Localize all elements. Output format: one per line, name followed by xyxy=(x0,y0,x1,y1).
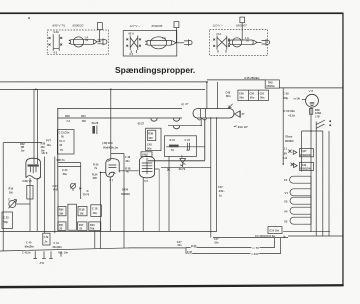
svg-text:432, 10n: 432, 10n xyxy=(58,251,68,255)
svg-text:C)47: C)47 xyxy=(301,149,307,153)
plug unit 2 fuse F2 xyxy=(145,36,176,49)
svg-text:6500/08: 6500/08 xyxy=(152,24,163,28)
svg-text:V 2: V 2 xyxy=(144,179,148,183)
capacitor CM box xyxy=(43,233,50,245)
tube V7 label xyxy=(109,178,113,182)
svg-text:C47: C47 xyxy=(218,185,223,189)
svg-text:5M: 5M xyxy=(59,212,63,216)
capacitor C40 label xyxy=(25,241,35,249)
mains bus wire L1 xyxy=(0,81,207,83)
svg-text:63 27: 63 27 xyxy=(138,122,145,126)
svg-text:R 33: R 33 xyxy=(93,163,99,167)
resistor R41 label xyxy=(243,76,260,80)
plug unit 2 switch xyxy=(126,32,141,57)
svg-text:R)N: R)N xyxy=(59,208,64,212)
label Ekstr 6000 xyxy=(285,135,294,143)
svg-text:50p: 50p xyxy=(4,220,9,224)
svg-text:50n|400k,1w: 50n|400k,1w xyxy=(103,145,118,149)
svg-text:C49: C49 xyxy=(239,92,244,96)
svg-text:C14 10n: C14 10n xyxy=(269,229,279,233)
svg-text:44R,7n: 44R,7n xyxy=(56,158,65,162)
tube V8 label xyxy=(309,89,314,93)
terminal tick xyxy=(60,252,62,257)
svg-text:C43: C43 xyxy=(147,142,152,146)
svg-text:150: 150 xyxy=(82,119,87,123)
svg-text:R16: R16 xyxy=(9,187,14,191)
wire junction dots xyxy=(35,81,312,173)
wire dropper right xyxy=(206,82,208,109)
svg-text:127 V ~: 127 V ~ xyxy=(130,24,141,28)
svg-text:30p: 30p xyxy=(283,96,288,100)
svg-text:10=100Ω R44 3w: 10=100Ω R44 3w xyxy=(255,234,275,238)
plug unit 3 wire to plug xyxy=(257,41,261,43)
capacitor 63-28 xyxy=(92,121,99,134)
svg-text:R,33: R,33 xyxy=(191,244,197,248)
svg-text:Extr HT: Extr HT xyxy=(238,125,248,129)
capacitor C48 label xyxy=(226,90,231,98)
ground bus LA xyxy=(0,230,217,232)
left column right edge xyxy=(80,163,82,199)
svg-text:30n|2kv: 30n|2kv xyxy=(53,245,63,249)
plug unit 3 label 6500/07 xyxy=(236,23,247,27)
label Extr HT xyxy=(234,125,248,129)
svg-text:C 53 30n: C 53 30n xyxy=(284,109,296,113)
svg-text:6500/20: 6500/20 xyxy=(73,24,84,28)
plug unit 2 label 127V xyxy=(130,24,141,28)
svg-text:200: 200 xyxy=(93,176,98,180)
svg-text:6000Ω: 6000Ω xyxy=(285,139,294,143)
x mark near V2 xyxy=(167,168,169,170)
bottom tie wire 2 xyxy=(288,235,343,237)
svg-text:150/5w: 150/5w xyxy=(266,84,274,88)
label -7V xyxy=(252,246,259,250)
svg-text:0.2A: 0.2A xyxy=(54,30,60,34)
plug unit 2 wire to plug xyxy=(176,42,184,44)
svg-text:50n: 50n xyxy=(260,96,265,100)
svg-text:PYT: PYT xyxy=(46,139,51,143)
label C36 R39 xyxy=(102,141,118,149)
label C34 xyxy=(62,168,68,176)
svg-text:R30: R30 xyxy=(65,114,70,118)
resistor R17 box xyxy=(78,222,87,231)
trimmer capacitor 3 xyxy=(70,183,75,191)
capacitor C52 label xyxy=(283,92,289,100)
plug unit 2 top terminal square xyxy=(174,22,179,28)
label 18V C14 xyxy=(283,147,288,160)
label Ib xyxy=(283,235,286,239)
svg-text:110 V ~: 110 V ~ xyxy=(213,23,223,27)
resistor box on stem xyxy=(27,185,33,199)
svg-text:10n: 10n xyxy=(214,241,219,245)
svg-text:C,10: C,10 xyxy=(53,184,59,188)
heater bus vertical xyxy=(310,176,312,224)
svg-text:R36: R36 xyxy=(41,142,46,146)
inner wire y167.3 xyxy=(161,166,211,168)
svg-text:63 A: 63 A xyxy=(129,32,134,36)
svg-text:R10: R10 xyxy=(90,223,95,227)
svg-text:R32: R32 xyxy=(20,142,25,146)
arrow to volume control xyxy=(229,104,233,108)
right column frame xyxy=(302,131,323,172)
plug unit 1 fuse F1 xyxy=(69,35,97,47)
heater wire UH left xyxy=(44,157,46,234)
svg-text:UH|2: UH|2 xyxy=(142,153,148,157)
top right wire xyxy=(207,79,265,81)
resistor R35 box tall xyxy=(68,204,77,230)
svg-text:1M: 1M xyxy=(9,190,13,194)
plug unit 1 riser wire xyxy=(99,30,101,42)
capacitor C42b label xyxy=(214,237,219,245)
label PU xyxy=(40,261,46,265)
plug unit 3 fuse F3 xyxy=(228,36,257,47)
svg-text:50n: 50n xyxy=(250,96,255,100)
page frame bottom border xyxy=(0,284,344,288)
big IF box right edge xyxy=(204,119,206,160)
svg-text:R42: R42 xyxy=(302,163,307,167)
svg-text:V1: V1 xyxy=(285,191,289,195)
resistor box R43 xyxy=(300,162,314,170)
svg-text:30n: 30n xyxy=(125,159,130,163)
svg-text:V 8: V 8 xyxy=(309,89,314,93)
svg-text:V3: V3 xyxy=(284,199,288,203)
plug unit 2 label 6500/08 xyxy=(152,24,163,28)
plug unit 3 riser wire xyxy=(241,23,243,40)
label R33 7a xyxy=(93,163,99,170)
label D 70-70 xyxy=(79,188,89,197)
wire dropper from top line xyxy=(216,82,218,109)
wire from R42 to border xyxy=(279,87,342,89)
svg-text:R)5: R)5 xyxy=(59,223,64,227)
svg-text:R 31: R 31 xyxy=(170,138,176,142)
svg-text:C50: C50 xyxy=(249,92,254,96)
label UH2 xyxy=(141,152,152,157)
svg-text:UH 6: UH 6 xyxy=(42,151,48,155)
wire x210.8 down xyxy=(210,118,212,238)
capacitor bank C49 C50 C51 box xyxy=(238,90,269,100)
svg-text:6500/07: 6500/07 xyxy=(236,23,247,27)
label 44R7n xyxy=(56,158,65,162)
svg-text:Jn: Jn xyxy=(44,239,47,243)
heater winding V3 xyxy=(284,197,311,204)
capacitor C38 xyxy=(91,205,102,217)
wire dropper to V3 pair xyxy=(36,89,38,164)
label FM xyxy=(187,250,192,254)
capacitor C44 xyxy=(185,138,191,152)
speaker cone xyxy=(234,111,240,118)
plug unit 2 box xyxy=(123,31,177,57)
coil box left xyxy=(57,130,74,155)
wire LC LD connector xyxy=(185,248,187,254)
label C41 5n xyxy=(22,250,31,254)
plug unit 1 dashed box xyxy=(47,30,108,55)
svg-text:D: D xyxy=(87,189,89,193)
left column cell line 1 xyxy=(58,162,80,164)
svg-text:A) 37: A) 37 xyxy=(180,102,189,106)
plug unit 1 wire to plug xyxy=(97,41,101,43)
tube V8 xyxy=(302,94,319,107)
wire x169 down xyxy=(168,156,170,231)
heater winding V2 xyxy=(284,217,311,224)
svg-text:C14: C14 xyxy=(283,156,288,160)
big IF box bottom edge xyxy=(148,160,205,162)
plug unit 1 switch xyxy=(49,30,63,55)
pickup terminal pins xyxy=(33,251,52,258)
svg-text:80n: 80n xyxy=(226,94,231,98)
wire x216 down xyxy=(216,118,218,231)
svg-text:10u: 10u xyxy=(47,143,52,147)
plug unit 2 riser wire xyxy=(175,28,177,43)
resistor R38 label xyxy=(315,108,321,118)
X mark 1 xyxy=(288,150,291,153)
label -10V xyxy=(251,252,259,256)
svg-text:V2: V2 xyxy=(284,219,288,223)
switch S2 contacts xyxy=(316,120,331,128)
plug unit 3 switch xyxy=(213,32,230,53)
winding bus 3 xyxy=(328,131,330,236)
wire dropper to V3 xyxy=(33,89,35,164)
svg-text:(3 A: (3 A xyxy=(217,32,222,36)
tube V7 stem left xyxy=(99,172,101,248)
plug unit 1 label 690V xyxy=(53,24,66,28)
trimmer capacitor C xyxy=(8,198,30,209)
trimmer capacitor 2b xyxy=(173,126,179,129)
svg-text:C 34: C 34 xyxy=(62,168,68,172)
svg-text:C 33: C 33 xyxy=(3,216,9,220)
svg-text:( 36| R39: ( 36| R39 xyxy=(102,141,113,145)
svg-text:18V: 18V xyxy=(283,151,288,155)
resistor box R41 xyxy=(300,149,314,157)
mains bus wire L2 xyxy=(0,88,205,90)
tube V2 stem xyxy=(142,178,144,232)
capacitor C4 labels xyxy=(41,142,46,153)
svg-text:R36: R36 xyxy=(148,132,153,136)
svg-text:C M: C M xyxy=(44,235,49,239)
svg-text:— 7V: — 7V xyxy=(252,246,259,250)
rectifier triangle 1 xyxy=(293,150,297,154)
output transformer box xyxy=(165,136,197,157)
svg-text:7 A: 7 A xyxy=(162,36,166,40)
svg-text:1 W: 1 W xyxy=(315,114,320,118)
svg-text:63-28: 63-28 xyxy=(92,121,99,125)
resistor R31 label xyxy=(81,114,86,123)
vertical connector x280 xyxy=(280,238,282,254)
resistor R32 labels xyxy=(20,142,25,153)
svg-text:D: D xyxy=(181,154,183,158)
svg-text:6 3: 6 3 xyxy=(54,51,58,55)
svg-text:-24V~: -24V~ xyxy=(218,189,225,193)
svg-text:=2.1k: =2.1k xyxy=(288,114,296,118)
svg-text:v+1N: v+1N xyxy=(294,97,300,101)
resistor R42 box xyxy=(265,80,279,88)
left column cell line 2 xyxy=(58,166,80,168)
svg-text:400r: 400r xyxy=(53,187,58,191)
svg-text:C 41: C 41 xyxy=(54,241,60,245)
plug unit 1 label 6500/20 xyxy=(73,24,84,28)
svg-text:C 48: C 48 xyxy=(125,155,131,159)
heater winding V1 xyxy=(285,189,312,196)
heater wire UH right xyxy=(54,157,56,234)
svg-text:10u: 10u xyxy=(93,211,98,215)
svg-text:C48: C48 xyxy=(226,90,231,94)
resistor R34 box xyxy=(58,206,66,215)
title Spaendingspropper xyxy=(115,65,195,75)
svg-text:800Ω|1W: 800Ω|1W xyxy=(300,167,311,171)
svg-text:C36| V3: C36| V3 xyxy=(22,179,32,183)
IF rail H1 xyxy=(57,107,182,109)
svg-text:30-79: 30-79 xyxy=(179,167,186,171)
label 432 10n xyxy=(58,251,68,255)
svg-text:V4: V4 xyxy=(284,209,288,213)
svg-text:C 4(,5n: C 4(,5n xyxy=(22,250,31,254)
wire LC xyxy=(186,247,275,249)
svg-text:F4: F4 xyxy=(284,178,288,182)
svg-text:C51: C51 xyxy=(260,92,265,96)
svg-text:C 44: C 44 xyxy=(185,138,191,142)
svg-text:5R34: 5R34 xyxy=(122,187,129,191)
label R44 xyxy=(255,234,275,238)
heater winding V4 xyxy=(284,207,311,214)
plug unit 3 dashed box xyxy=(210,30,268,56)
bus LB xyxy=(213,237,288,239)
speck xyxy=(28,17,30,18)
svg-text:C: C xyxy=(8,198,10,202)
tube V3 anode stem xyxy=(36,178,38,231)
tube V2 side wire xyxy=(158,169,160,231)
svg-text:R,34: R,34 xyxy=(92,172,98,176)
svg-text:900Ω|1W: 900Ω|1W xyxy=(300,153,311,157)
wire left column down xyxy=(57,190,59,231)
wire LD right xyxy=(186,253,281,255)
small label xyxy=(294,97,300,101)
row of parts under box: resistor 54 xyxy=(169,138,179,152)
svg-text:5n 4: 5n 4 xyxy=(59,139,65,143)
winding bus 2b xyxy=(322,131,324,236)
svg-text:1n: 1n xyxy=(219,193,222,197)
svg-text:6 3: 6 3 xyxy=(130,52,134,56)
plug unit 3 label 110V xyxy=(213,23,223,27)
label 63 27 xyxy=(138,122,145,126)
svg-text:—10V: —10V xyxy=(251,252,259,256)
page frame top border xyxy=(0,12,343,14)
svg-text:20u: 20u xyxy=(63,172,68,176)
svg-text:50469H: 50469H xyxy=(121,192,130,196)
svg-text:1M: 1M xyxy=(80,212,84,216)
tube V2 xyxy=(140,156,160,177)
svg-text:690 V TIL: 690 V TIL xyxy=(53,24,66,28)
svg-text:3n: 3n xyxy=(186,148,189,152)
trimmer capacitor 1 xyxy=(151,118,157,121)
left coupling line xyxy=(3,142,42,144)
resistor on V8 stem xyxy=(309,109,312,115)
plug unit 1 mains plug P1 xyxy=(98,38,108,45)
label C48 30n xyxy=(125,155,131,163)
svg-text:F M: F M xyxy=(187,250,192,254)
tube V7 xyxy=(100,159,138,177)
wire x122 down xyxy=(111,154,124,249)
svg-text:7 A: 7 A xyxy=(66,119,70,123)
resistor R25 box xyxy=(58,222,66,231)
label PVTT xyxy=(46,139,51,147)
resistor R18 box xyxy=(78,206,87,215)
label R34 200 xyxy=(92,172,98,180)
resistor R37 xyxy=(89,222,101,231)
wire down right column xyxy=(282,88,284,164)
plug unit 1 top terminal square xyxy=(97,23,102,30)
label A37 xyxy=(180,102,189,106)
trimmer row line xyxy=(168,125,202,127)
label 30-79 xyxy=(179,167,186,171)
heater winding F4 xyxy=(284,176,311,183)
wire stub below cartridge xyxy=(200,118,202,126)
tube V3 xyxy=(26,158,41,179)
tube V3 cathode stem xyxy=(29,178,31,231)
resistor R30 label xyxy=(65,114,70,123)
plug unit 3 top terminal square xyxy=(240,17,245,23)
svg-text:10n: 10n xyxy=(177,243,182,247)
tube V7 stem right xyxy=(109,177,111,231)
svg-text:C 11,C0n: C 11,C0n xyxy=(59,130,70,134)
capacitor C47 label xyxy=(218,185,225,197)
svg-text:C 18: C 18 xyxy=(92,206,98,210)
svg-text:C 52: C 52 xyxy=(283,92,289,96)
capacitor C53 label xyxy=(284,109,296,117)
svg-text:30n: 30n xyxy=(41,145,46,149)
svg-text:R17: R17 xyxy=(79,223,84,227)
wire below LA x94 xyxy=(94,231,96,248)
resistor R16 label xyxy=(9,187,14,195)
wire LD left xyxy=(0,248,186,251)
capacitor C33 box xyxy=(2,212,13,229)
svg-text:50n: 50n xyxy=(240,96,245,100)
page frame right border xyxy=(342,13,343,287)
label R38 4k xyxy=(125,167,131,174)
resistor R36 box xyxy=(146,128,161,150)
svg-text:1.1: 1.1 xyxy=(284,147,288,151)
diode D xyxy=(180,154,186,167)
svg-text:90n|2kv: 90n|2kv xyxy=(25,245,35,249)
winding bus 2 xyxy=(315,122,317,237)
svg-text:70-70: 70-70 xyxy=(83,192,90,196)
left border wire xyxy=(2,143,4,251)
trimmer capacitor 2 xyxy=(173,118,179,121)
row wire xyxy=(166,146,205,148)
svg-text:R31: R31 xyxy=(81,114,86,118)
big IF box left edge xyxy=(57,108,59,190)
tube V3 label xyxy=(22,179,32,183)
svg-text:C4?: C4? xyxy=(177,240,182,244)
volume control unit (long cartridge) xyxy=(193,109,234,120)
tube V2 inlet xyxy=(146,155,148,158)
tube V2 label xyxy=(144,179,148,183)
svg-text:R42: R42 xyxy=(268,80,273,84)
X mark 2 xyxy=(291,163,294,166)
svg-text:50n: 50n xyxy=(147,146,152,150)
wire dropper to V7 xyxy=(110,89,112,158)
svg-text:C 40: C 40 xyxy=(26,241,32,245)
resistor R34b label xyxy=(121,187,130,195)
svg-text:70k: 70k xyxy=(90,227,95,231)
svg-text:Spændingspropper.: Spændingspropper. xyxy=(115,65,195,75)
svg-text:5w: 5w xyxy=(21,149,24,153)
label C10 400r xyxy=(53,184,59,192)
tube V8 stem xyxy=(310,107,312,232)
plug unit 3 mains plug P3 xyxy=(262,39,270,45)
svg-text:R,)B: R,)B xyxy=(79,208,84,212)
bottom tie wire 1 xyxy=(283,230,330,232)
capacitor C41b label xyxy=(177,240,182,247)
label R33 xyxy=(191,244,197,248)
IF rail H2 xyxy=(57,117,182,119)
